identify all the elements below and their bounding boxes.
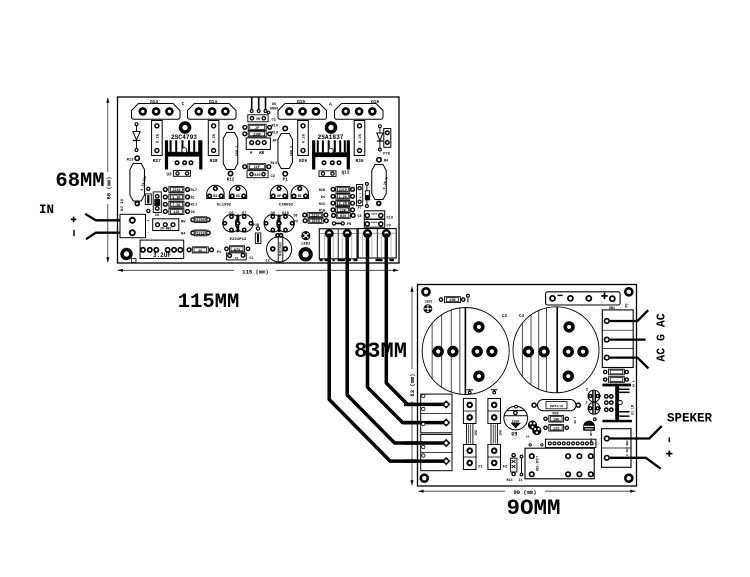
resistor R10 bbox=[242, 125, 247, 130]
svg-text:2: 2 bbox=[585, 402, 587, 406]
heatsink / transistor 2SC4793 bbox=[165, 140, 168, 169]
svg-text:C9: C9 bbox=[387, 225, 391, 229]
resistor R1J bbox=[163, 202, 168, 207]
svg-text:R29: R29 bbox=[299, 158, 307, 164]
resistor R14b bbox=[242, 164, 247, 169]
svg-text:AB: AB bbox=[259, 152, 265, 156]
svg-text:D4: D4 bbox=[321, 196, 325, 200]
svg-text:LED2: LED2 bbox=[301, 243, 311, 247]
wire ends into PSU connector bbox=[404, 403, 446, 407]
svg-text:12K: 12K bbox=[173, 211, 180, 215]
wire speaker + bbox=[610, 458, 661, 469]
svg-text:Q14: Q14 bbox=[209, 99, 217, 105]
svg-text:Q16: Q16 bbox=[371, 99, 379, 105]
wire input + bbox=[85, 214, 132, 221]
jumper W1 bbox=[466, 294, 470, 298]
svg-text:AP7: AP7 bbox=[273, 140, 279, 144]
header J2 pins bbox=[251, 98, 253, 110]
capacitor C2 bbox=[247, 171, 268, 178]
svg-text:829: 829 bbox=[254, 174, 260, 178]
label - (speaker) bbox=[668, 438, 670, 443]
svg-text:P-OUT DB2: P-OUT DB2 bbox=[626, 440, 629, 455]
svg-text:IN RB2: IN RB2 bbox=[160, 227, 172, 231]
svg-text:2218: 2218 bbox=[172, 189, 180, 193]
connector RB2 bbox=[153, 219, 179, 231]
label + (input) bbox=[71, 218, 77, 220]
resistor R25 (LED) bbox=[439, 297, 444, 302]
svg-text:DB1: DB1 bbox=[609, 307, 615, 311]
svg-text:R13: R13 bbox=[506, 479, 512, 483]
svg-text:FN: FN bbox=[347, 223, 351, 227]
svg-text:P9: P9 bbox=[294, 220, 298, 224]
heatsink U1 (PSU) bbox=[602, 384, 631, 387]
wire V+ supply bbox=[329, 234, 446, 462]
resistor R7 bbox=[224, 246, 229, 251]
svg-text:F2: F2 bbox=[503, 466, 508, 470]
mounting hole bottom center bbox=[298, 247, 312, 261]
pads left of CN1 bbox=[529, 443, 532, 446]
wire G bbox=[610, 338, 646, 340]
svg-text:R13: R13 bbox=[127, 158, 135, 162]
svg-text:2204: 2204 bbox=[196, 219, 204, 223]
svg-text:680.2: 680.2 bbox=[236, 146, 240, 157]
dimension line 90mm horizontal bbox=[418, 490, 635, 492]
transistor Q21 bbox=[532, 426, 541, 435]
output connector pads bbox=[325, 229, 334, 238]
resistor R22 10K bbox=[543, 417, 548, 422]
resistor R1 bbox=[163, 194, 168, 199]
svg-text:10 A: 10 A bbox=[633, 380, 636, 387]
svg-text:12: 12 bbox=[265, 260, 269, 264]
resistor R18 bbox=[242, 131, 247, 136]
svg-text:680.2: 680.2 bbox=[291, 146, 295, 157]
svg-text:R1J: R1J bbox=[191, 204, 197, 208]
svg-text:0.25: 0.25 bbox=[156, 133, 160, 143]
resistor R26 bbox=[603, 370, 608, 375]
svg-text:R14: R14 bbox=[271, 162, 278, 166]
header CN1 bbox=[545, 439, 596, 447]
svg-text:E224P12: E224P12 bbox=[230, 238, 247, 242]
svg-text:11P: 11P bbox=[254, 166, 260, 170]
zener D12V bbox=[543, 426, 548, 431]
svg-text:C10: C10 bbox=[387, 217, 393, 221]
resistor R28 0.25ohm bbox=[208, 121, 219, 156]
svg-text:R17: R17 bbox=[191, 189, 197, 193]
svg-text:F7: F7 bbox=[358, 206, 362, 210]
dimension line 83mm vertical bbox=[411, 287, 413, 486]
mounting hole for 2SC4793 bbox=[179, 121, 192, 134]
svg-text:R27: R27 bbox=[153, 158, 161, 164]
capacitor bank 3.2UF bbox=[140, 240, 184, 258]
svg-text:oooo: oooo bbox=[371, 212, 378, 215]
svg-text:C2N092: C2N092 bbox=[279, 203, 294, 207]
component D10 bbox=[319, 171, 336, 177]
fuse F1 bbox=[463, 399, 476, 424]
svg-text:C3: C3 bbox=[502, 315, 508, 319]
svg-text:2F: 2F bbox=[255, 127, 259, 131]
diode D8 bbox=[378, 124, 382, 128]
svg-text:226F: 226F bbox=[512, 419, 520, 423]
svg-text:D5: D5 bbox=[236, 195, 240, 199]
svg-text:9OMM: 9OMM bbox=[506, 495, 560, 521]
svg-text:68MM: 68MM bbox=[55, 170, 104, 193]
svg-text:10K: 10K bbox=[449, 299, 456, 303]
svg-text:IN: IN bbox=[39, 203, 54, 217]
resistor R27 0.25ohm bbox=[152, 121, 163, 156]
mounting hole bottom left bbox=[120, 248, 132, 260]
LED2 bbox=[302, 232, 310, 240]
svg-text:U1 LM: U1 LM bbox=[631, 405, 635, 415]
resistor R12 2W bbox=[228, 124, 234, 130]
transistor Q13 footprint bbox=[132, 104, 181, 120]
svg-text:R15: R15 bbox=[319, 203, 325, 207]
svg-text:oooo: oooo bbox=[371, 221, 378, 224]
svg-text:LED1: LED1 bbox=[425, 300, 433, 304]
svg-text:0.25: 0.25 bbox=[303, 133, 307, 143]
svg-text:A: A bbox=[329, 102, 332, 108]
svg-text:D8: D8 bbox=[293, 215, 297, 219]
svg-text:C1: C1 bbox=[249, 257, 253, 261]
svg-text:C2: C2 bbox=[271, 175, 276, 179]
svg-text:R4: R4 bbox=[181, 233, 186, 237]
svg-text:R28: R28 bbox=[210, 158, 218, 164]
svg-text:C8: C8 bbox=[358, 215, 362, 219]
svg-text:D9: D9 bbox=[272, 103, 276, 107]
svg-text:10A: 10A bbox=[474, 430, 478, 436]
label + (DC) bbox=[601, 295, 607, 297]
wire speaker - bbox=[610, 426, 662, 438]
capacitor C4 (filter) bbox=[513, 307, 599, 393]
label - (input) bbox=[73, 230, 75, 236]
svg-text:4.7: 4.7 bbox=[360, 193, 363, 199]
mounting hole top right (PSU) bbox=[624, 287, 634, 297]
svg-text:REC-3PDT: REC-3PDT bbox=[536, 456, 540, 471]
svg-text:NJ IG: NJ IG bbox=[121, 198, 125, 211]
svg-text:+: + bbox=[147, 220, 149, 224]
svg-text:22NF: 22NF bbox=[253, 133, 261, 137]
wire GND supply bbox=[347, 234, 446, 444]
mounting hole top left (PSU) bbox=[421, 287, 431, 297]
svg-text:R1: R1 bbox=[191, 196, 195, 200]
svg-text:C6: C6 bbox=[155, 214, 160, 218]
transistor Q20 bbox=[528, 420, 537, 429]
svg-text:R18: R18 bbox=[272, 132, 278, 136]
svg-text:Q15: Q15 bbox=[297, 99, 305, 105]
svg-text:7.5K: 7.5K bbox=[172, 204, 181, 208]
svg-text:68 (mm): 68 (mm) bbox=[106, 176, 113, 199]
svg-text:R9 3: R9 3 bbox=[574, 416, 577, 423]
svg-text:115 (mm): 115 (mm) bbox=[242, 268, 268, 275]
pad above F2 bbox=[492, 391, 496, 395]
wire GND2 supply bbox=[368, 234, 447, 423]
resistor R17 bbox=[163, 187, 168, 192]
power supply board outline bbox=[418, 285, 637, 487]
output connector bottom markings bbox=[320, 259, 323, 261]
jumper FN bbox=[332, 221, 336, 225]
pads row (PSU right) bbox=[604, 394, 609, 399]
svg-text:221P: 221P bbox=[339, 189, 347, 193]
dimension line 115mm horizontal bbox=[118, 269, 399, 271]
fuse F2 bbox=[488, 399, 501, 424]
mounting hole for 2SA1837 bbox=[325, 121, 338, 134]
svg-text:R12: R12 bbox=[227, 179, 235, 183]
transistor Q14 footprint bbox=[188, 104, 237, 120]
svg-text:R5: R5 bbox=[181, 221, 186, 225]
svg-text:12V: 12V bbox=[553, 427, 560, 431]
svg-text:2218: 2218 bbox=[196, 232, 204, 236]
jumper Z1 bbox=[520, 455, 524, 459]
svg-text:RI: RI bbox=[298, 195, 302, 199]
svg-text:10A: 10A bbox=[499, 430, 503, 436]
diode MR750 bbox=[531, 402, 537, 408]
svg-text:a7o: a7o bbox=[234, 249, 240, 253]
wire input - bbox=[86, 233, 132, 240]
resistor R27b bbox=[603, 377, 608, 382]
capacitor C3 (filter) bbox=[422, 308, 509, 395]
svg-text:C4: C4 bbox=[526, 436, 530, 439]
transistor T2 MJE15030 bbox=[267, 237, 292, 262]
relay RL1 bbox=[525, 448, 594, 479]
svg-text:2218: 2218 bbox=[312, 220, 320, 224]
wire AC1 bbox=[610, 310, 648, 321]
dimension line 68mm vertical bbox=[107, 98, 109, 263]
label - (DC) bbox=[558, 294, 563, 296]
svg-text:2SC4793: 2SC4793 bbox=[171, 134, 197, 141]
svg-text:83MM: 83MM bbox=[354, 339, 407, 364]
transistor Q4 bbox=[291, 185, 308, 198]
svg-text:Q13: Q13 bbox=[150, 99, 158, 105]
svg-text:AC G AC: AC G AC bbox=[656, 313, 669, 361]
svg-text:B1: B1 bbox=[213, 195, 217, 199]
transistor Q2 bbox=[229, 185, 246, 198]
svg-text:Q12: Q12 bbox=[341, 170, 349, 176]
svg-text:BK: BK bbox=[198, 249, 202, 252]
capacitor C9 bbox=[364, 219, 384, 227]
svg-text:5.3K: 5.3K bbox=[172, 197, 181, 201]
svg-text:R1B: R1B bbox=[319, 189, 325, 193]
svg-text:P4: P4 bbox=[217, 251, 221, 255]
svg-text:C: C bbox=[182, 101, 185, 107]
transistor Q1 bbox=[207, 185, 224, 198]
svg-text:3.2UF: 3.2UF bbox=[153, 252, 171, 259]
heatsink / transistor Q12 2SA1837 bbox=[312, 140, 315, 169]
svg-text:2.2K: 2.2K bbox=[339, 203, 348, 207]
svg-text:115MM: 115MM bbox=[178, 291, 240, 314]
regulator E8 bbox=[504, 406, 528, 430]
svg-text:R20: R20 bbox=[340, 215, 346, 219]
resistor R20 bbox=[331, 213, 336, 218]
svg-text:0.25: 0.25 bbox=[213, 133, 217, 143]
svg-text:10K: 10K bbox=[553, 418, 560, 422]
svg-text:D3: D3 bbox=[191, 211, 195, 215]
amplifier board outline bbox=[118, 97, 400, 263]
pad above F1 bbox=[468, 391, 472, 395]
svg-text:R30: R30 bbox=[355, 158, 363, 164]
resistor D3 bbox=[163, 209, 168, 214]
transistor Q16 footprint bbox=[335, 104, 384, 120]
svg-text:F1: F1 bbox=[478, 466, 483, 470]
svg-text:R10: R10 bbox=[272, 125, 278, 129]
svg-text:16: 16 bbox=[235, 257, 239, 260]
svg-text:E8: E8 bbox=[511, 430, 517, 436]
resistor R30 0.25ohm bbox=[354, 121, 365, 156]
input connector J1 bbox=[120, 214, 146, 237]
svg-text:PS: PS bbox=[626, 303, 630, 307]
input terminal block lower (PSU) bbox=[421, 434, 452, 470]
capacitor C12 bbox=[357, 185, 363, 206]
transistor Q15 footprint bbox=[278, 104, 327, 120]
svg-text:0.25: 0.25 bbox=[359, 133, 363, 143]
transistor Q22 bbox=[588, 390, 600, 402]
svg-text:P1: P1 bbox=[283, 179, 289, 183]
svg-text:-: - bbox=[147, 232, 149, 236]
input terminal block upper (PSU) bbox=[421, 394, 452, 433]
capacitor C6 bbox=[153, 192, 161, 213]
diode D7 bbox=[135, 122, 139, 126]
diode D6 bbox=[365, 182, 369, 186]
capacitor C10 bbox=[364, 211, 384, 219]
svg-text:R4: R4 bbox=[384, 160, 389, 164]
svg-text:DEL OUT: DEL OUT bbox=[590, 431, 593, 443]
svg-text:C1: C1 bbox=[272, 119, 277, 123]
svg-text:6L1992: 6L1992 bbox=[217, 203, 232, 207]
speaker terminal block bbox=[602, 429, 632, 468]
diode D11 bbox=[583, 421, 595, 431]
transistor Q3 bbox=[270, 185, 287, 198]
svg-text:DN09: DN09 bbox=[270, 108, 278, 112]
resistor R29 0.25ohm bbox=[298, 121, 309, 156]
resistor R6 1K bbox=[187, 247, 192, 252]
wire V- supply bbox=[386, 234, 446, 405]
svg-text:U3: U3 bbox=[166, 174, 172, 178]
output connector J3 block A bbox=[319, 229, 357, 259]
svg-text:C4: C4 bbox=[519, 315, 525, 319]
resistor R14 2W bbox=[376, 157, 382, 163]
svg-text:MJE1503: MJE1503 bbox=[278, 242, 282, 255]
svg-text:1.2K: 1.2K bbox=[339, 196, 348, 200]
svg-text:SPEKER: SPEKER bbox=[667, 412, 713, 426]
svg-text:83 (mm): 83 (mm) bbox=[409, 373, 416, 396]
label + (speaker) bbox=[666, 453, 672, 455]
resistor R2 bbox=[146, 187, 150, 191]
svg-text:Z1: Z1 bbox=[518, 479, 522, 483]
capacitor C7 bbox=[226, 253, 246, 260]
svg-text:OP: OP bbox=[277, 195, 281, 199]
trimmer VR1 bbox=[248, 115, 268, 122]
AC terminal block bbox=[602, 310, 633, 368]
svg-text:2SA1837: 2SA1837 bbox=[318, 134, 344, 141]
svg-text:PTB: PTB bbox=[383, 153, 390, 157]
resistor R11 2W bbox=[282, 126, 288, 132]
mounting hole bottom left (PSU) bbox=[420, 473, 430, 483]
DC output connector bbox=[546, 292, 621, 305]
svg-text:60PIV/35: 60PIV/35 bbox=[550, 404, 564, 408]
resistor R13 (PSU) bbox=[511, 453, 516, 458]
output connector J3 block B bbox=[358, 229, 396, 258]
svg-text:2: 2 bbox=[586, 389, 588, 393]
connector PTB bbox=[384, 129, 391, 148]
wire AC2 bbox=[610, 358, 649, 369]
connector A-AB bbox=[246, 138, 270, 150]
mounting hole bottom right (PSU) bbox=[624, 473, 634, 483]
transistor Q23 bbox=[588, 402, 600, 414]
